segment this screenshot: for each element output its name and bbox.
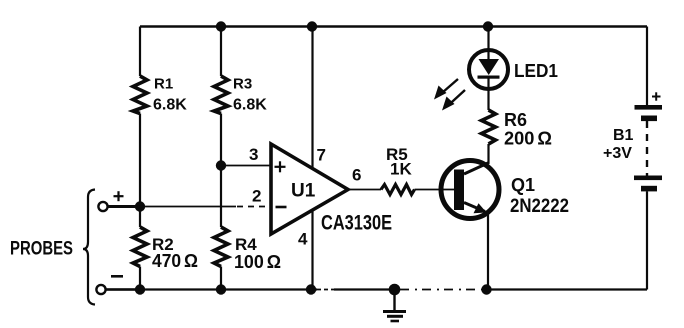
LED1 circle [469, 50, 508, 89]
svg-text:6: 6 [352, 166, 361, 185]
svg-text:+3V: +3V [603, 145, 632, 162]
wire left column upper (top rail to R1) [139, 27, 141, 77]
wire R1 bottom to +probe node [139, 114, 141, 207]
label minus sign probe [111, 275, 123, 278]
wire bottom rail right solid [484, 288, 647, 290]
wire pin2 dashed segment [237, 206, 270, 208]
wire +probe node to R2 [139, 207, 141, 228]
transistor Q1 circle [441, 161, 499, 219]
LED light arrow lower [447, 90, 465, 107]
svg-text:470 Ω: 470 Ω [152, 251, 198, 271]
ground [383, 290, 406, 322]
wire pin4 to bottom rail [311, 211, 313, 290]
resistor R2 [133, 227, 147, 267]
node top rail R3 junction [216, 21, 226, 31]
wire bottom rail left solid [106, 288, 317, 290]
svg-text:LED1: LED1 [514, 61, 558, 81]
wire R5 to Q1 base [415, 189, 455, 191]
LED1 diode triangle [479, 59, 500, 75]
node +probe junction [135, 201, 145, 211]
wire top rail [140, 25, 647, 28]
svg-text:3: 3 [249, 145, 258, 164]
label op-amp minus input [276, 206, 287, 209]
wire LED top to rail [487, 27, 489, 60]
svg-text:6.8K: 6.8K [233, 97, 267, 114]
node emitter bottom rail junction [481, 284, 491, 294]
svg-text:Q1: Q1 [511, 175, 535, 195]
label op-amp plus input [275, 161, 286, 172]
wire LED to R6 [487, 79, 489, 111]
svg-text:R3: R3 [233, 76, 252, 93]
LED light arrow upper [439, 79, 458, 96]
wire pin7 to top rail [311, 27, 313, 169]
svg-text:2N2222: 2N2222 [510, 196, 569, 217]
wire R2 bottom to bottom rail [139, 267, 141, 290]
LED1 cathode bar [478, 76, 500, 79]
wire Q1 emitter down to bottom rail [487, 213, 489, 290]
node pin3 junction [216, 160, 226, 170]
battery B1 bottom short plate [641, 186, 657, 192]
svg-text:7: 7 [317, 146, 326, 165]
node R4 bottom junction [216, 284, 226, 294]
transistor Q1 emitter stroke with arrow [464, 203, 485, 212]
svg-text:1K: 1K [390, 160, 412, 179]
svg-text:CA3130E: CA3130E [321, 212, 392, 235]
wire second column top (rail to R3) [220, 27, 222, 77]
wire pin2 from junction toward op-amp [140, 206, 236, 208]
probe plus terminal [98, 202, 107, 211]
op-amp U1 triangle [271, 144, 348, 234]
battery B1 plus sign [652, 92, 661, 100]
svg-text:200 Ω: 200 Ω [504, 129, 552, 149]
transistor Q1 collector stroke [464, 163, 489, 175]
resistor R4 [214, 227, 228, 267]
resistor R1 [133, 76, 147, 114]
wire bottom rail dotted bit after pin4 node [317, 289, 334, 291]
wire minus probe to bottom rail [106, 288, 140, 290]
battery internal dashed link [646, 121, 648, 176]
resistor R3 [214, 76, 228, 114]
svg-text:U1: U1 [291, 181, 316, 202]
svg-text:R6: R6 [504, 110, 527, 130]
battery B1 top long plate [635, 105, 663, 110]
node ground junction [389, 284, 401, 296]
brace probes [83, 190, 95, 305]
transistor Q1 base bar [454, 170, 464, 211]
wire Q1 collector up to R6 [487, 144, 489, 164]
wire right side top (rail to battery) [646, 27, 648, 106]
battery B1 bottom long plate [634, 176, 662, 181]
node LED top rail junction [483, 21, 493, 31]
svg-text:4: 4 [298, 230, 308, 249]
wire pin3 input [221, 165, 271, 167]
wire pin3 node down to R4 [220, 166, 222, 228]
svg-text:2: 2 [252, 187, 261, 206]
wire plus probe to junction [108, 205, 140, 208]
svg-text:R1: R1 [154, 76, 173, 93]
svg-text:6.8K: 6.8K [153, 97, 187, 114]
wire op-amp output to R5 [348, 189, 381, 191]
resistor R6 [482, 110, 496, 144]
wire R4 bottom to bottom rail [220, 267, 222, 290]
probe minus terminal [96, 285, 105, 294]
node R2 bottom junction [135, 284, 145, 294]
svg-text:100 Ω: 100 Ω [234, 252, 281, 272]
wire right side bottom (battery to bottom rail) [646, 191, 648, 289]
wire bottom rail mid solid [334, 288, 398, 290]
svg-text:PROBES: PROBES [10, 239, 73, 260]
resistor R5 [381, 185, 415, 195]
node pin4 bottom rail junction [306, 284, 316, 294]
node pin7 top rail junction [307, 21, 317, 31]
wire bottom rail dashed middle [400, 289, 484, 291]
battery B1 top short plate [641, 116, 657, 122]
label plus sign probe [114, 191, 124, 201]
wire R3 bottom to pin3 node [220, 114, 222, 166]
svg-text:B1: B1 [613, 127, 634, 144]
